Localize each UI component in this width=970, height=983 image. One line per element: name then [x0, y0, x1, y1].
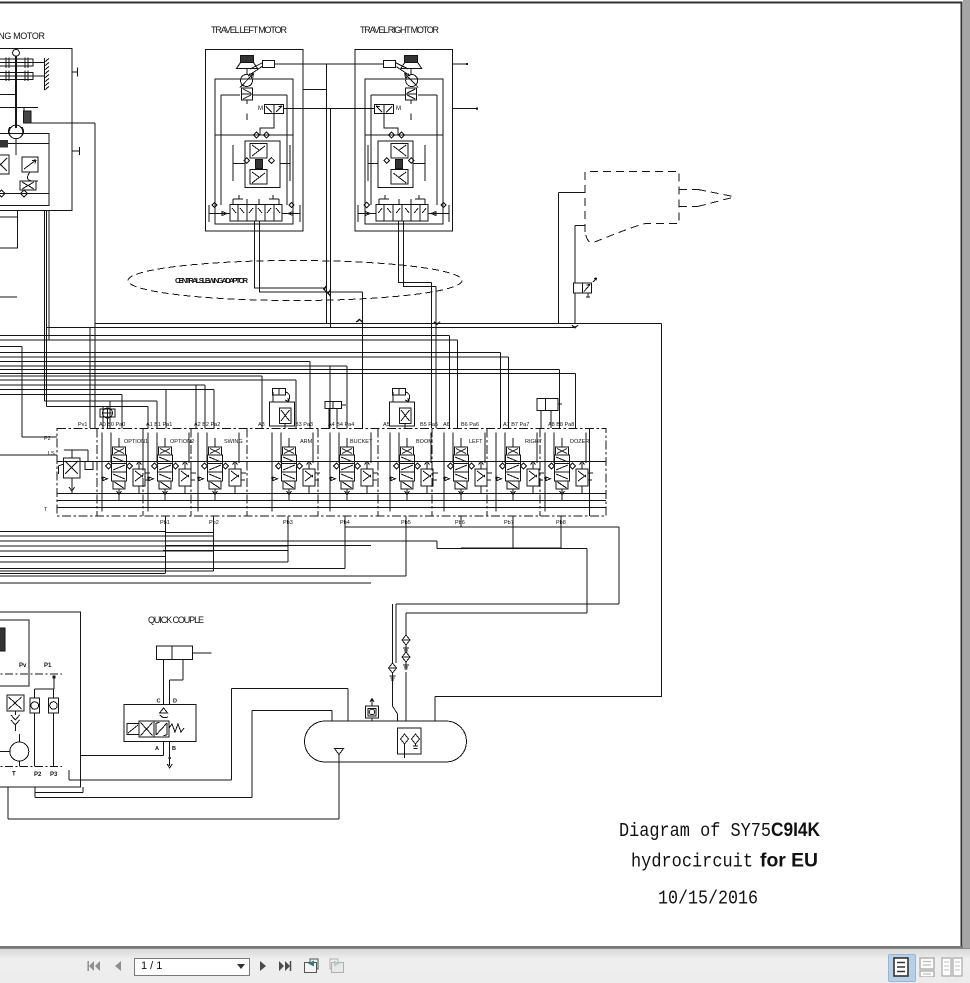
- internals row2 valve: [0, 155, 9, 174]
- travel left motor: [206, 50, 303, 231]
- svg-text:Pb7: Pb7: [504, 520, 514, 526]
- breather drain line: [8, 762, 339, 819]
- pilot box: [263, 61, 275, 68]
- svg-text:A4 B4 Pa4: A4 B4 Pa4: [328, 422, 354, 428]
- svg-text:T: T: [12, 772, 16, 778]
- continuous view icon: [919, 957, 935, 977]
- section labels: [124, 439, 589, 445]
- pedestal: [0, 95, 38, 111]
- svg-text:T: T: [44, 507, 48, 513]
- inner valve box: [0, 134, 49, 206]
- motor circle: [9, 125, 23, 139]
- svg-text:ARM: ARM: [300, 439, 313, 445]
- toolbar first-page btn: [86, 958, 102, 974]
- svg-text:B: B: [172, 746, 176, 752]
- svg-text:OPTION2: OPTION2: [170, 439, 194, 445]
- svg-text:A5: A5: [383, 422, 390, 428]
- below-block tie wires: [165, 516, 561, 576]
- wire QC rod: [193, 652, 212, 654]
- A/B stems: [164, 742, 173, 769]
- gear rack upper: [0, 59, 33, 66]
- single page view icon (active): [888, 954, 916, 982]
- pilot bus lines left: [0, 335, 449, 428]
- central slewing adaptor ellipse: [128, 261, 462, 301]
- title text: [619, 820, 820, 910]
- svg-text:LS: LS: [48, 451, 55, 457]
- QC valve: [124, 699, 196, 769]
- svg-text:M: M: [258, 106, 263, 112]
- svg-text:RIGHT: RIGHT: [525, 439, 543, 445]
- wire pump to QC: [81, 755, 164, 757]
- wire travel-right pilot pair: [399, 231, 436, 287]
- svg-text:OPTION1: OPTION1: [124, 439, 148, 445]
- counterbalance valve: [245, 141, 280, 188]
- wire slewing out right: [30, 123, 95, 323]
- toolbar next btn: [255, 958, 271, 974]
- pump drain jog: [35, 787, 83, 793]
- port check P2: [30, 698, 40, 713]
- svg-text:10/15/2016: 10/15/2016: [658, 888, 758, 910]
- svg-text:TRAVEL LEFT MOTOR: TRAVEL LEFT MOTOR: [211, 25, 288, 35]
- main control valve block border: [57, 429, 606, 517]
- wire between motors: [275, 64, 478, 109]
- wire branch right: [330, 292, 362, 428]
- BUCKET top component: [325, 402, 346, 429]
- internals row4 diamonds: [0, 190, 49, 197]
- svg-text:SWING: SWING: [224, 439, 243, 445]
- motor M1: [241, 75, 253, 87]
- svg-text:P2: P2: [44, 436, 51, 442]
- DOZER pilot cylinder: [537, 399, 562, 429]
- internals row3: [20, 181, 36, 190]
- wire slewing pilot pair: [45, 211, 50, 407]
- wire P3 feed pair: [90, 324, 95, 429]
- svg-text:C9I4K: C9I4K: [771, 820, 820, 841]
- svg-text:A6: A6: [443, 422, 450, 428]
- 4way body: [139, 721, 154, 737]
- svg-text:BUCKET: BUCKET: [350, 439, 373, 445]
- wire central pair: [326, 64, 330, 328]
- toolbar prev btn: [110, 958, 126, 974]
- svg-text:SLEWING MOTOR: SLEWING MOTOR: [0, 31, 46, 41]
- solenoid valve M: [265, 105, 284, 114]
- svg-text:A: A: [155, 746, 159, 752]
- svg-text:B3 Pa3: B3 Pa3: [295, 422, 313, 428]
- svg-text:M: M: [396, 106, 401, 112]
- svg-text:CENTRAL SLEWING ADAPTOR: CENTRAL SLEWING ADAPTOR: [175, 276, 249, 285]
- wire to blob lower: [575, 226, 585, 283]
- internals row1: [0, 140, 8, 148]
- wire travel-left pilot pair: [255, 231, 331, 292]
- galleries: [57, 461, 606, 507]
- pump unit box: [0, 612, 81, 787]
- ARM pilot module: [270, 389, 295, 429]
- pilot relief: [7, 695, 24, 711]
- next-view icon (disabled): [327, 957, 346, 975]
- slewing drain steps left: [0, 211, 18, 297]
- short cols to Pv0 ports: [103, 401, 110, 428]
- dashed adaptor blob: [585, 172, 735, 243]
- svg-text:Diagram of SY75: Diagram of SY75: [619, 820, 771, 842]
- return filter: [398, 728, 422, 754]
- slewing motor label: [0, 25, 440, 41]
- svg-text:A1 B1 Pa1: A1 B1 Pa1: [146, 422, 172, 428]
- travel right motor: [355, 50, 452, 231]
- svg-text:P1: P1: [44, 663, 52, 669]
- svg-text:Pv: Pv: [19, 663, 27, 669]
- svg-text:QUICK COUPLE: QUICK COUPLE: [148, 615, 204, 625]
- svg-text:P3: P3: [50, 772, 58, 778]
- T stub right: [72, 68, 80, 156]
- slewing motor box: [0, 48, 80, 210]
- solenoid: [127, 724, 139, 735]
- breather: [335, 749, 344, 763]
- svg-text:D: D: [173, 699, 177, 705]
- two page view icon: [941, 957, 963, 977]
- prev-view icon: [302, 957, 321, 975]
- speed valve: [242, 88, 253, 94]
- svg-text:Pv1: Pv1: [78, 422, 87, 428]
- outlet stems: [255, 221, 260, 231]
- pump circle: [10, 742, 29, 761]
- shaft: [15, 56, 17, 128]
- svg-text:B6 Pa6: B6 Pa6: [461, 422, 479, 428]
- wire to blob upper: [558, 192, 585, 324]
- solenoid valve on blob line: [574, 278, 597, 324]
- svg-text:TRAVEL RIGHT MOTOR: TRAVEL RIGHT MOTOR: [360, 25, 440, 35]
- svg-text:A8 B8 Pa8: A8 B8 Pa8: [548, 422, 574, 428]
- spring: [169, 724, 184, 732]
- brake box: [24, 111, 32, 123]
- internals pilot: [22, 157, 38, 172]
- block inner right wall: [588, 429, 590, 517]
- page number box: [134, 958, 250, 976]
- wire to shuttle: [247, 114, 274, 136]
- tank return steps from QC: [69, 689, 348, 781]
- node dot: [466, 63, 468, 65]
- chevron junctions on bus: [434, 322, 578, 328]
- LS line: [0, 454, 57, 456]
- port symbol G: [100, 408, 115, 428]
- parking brake: [241, 56, 254, 63]
- QC cylinder: [157, 646, 212, 704]
- junction chevrons: [324, 286, 363, 322]
- side labels: [44, 436, 55, 513]
- strainer component above tank: [366, 699, 379, 722]
- svg-text:C: C: [157, 699, 161, 705]
- svg-text:B5 Pa5: B5 Pa5: [420, 422, 438, 428]
- svg-text:P2: P2: [34, 772, 42, 778]
- svg-text:A2 B2 Pa2: A2 B2 Pa2: [194, 422, 220, 428]
- wire link y89: [303, 89, 326, 91]
- pilot check: [160, 708, 168, 718]
- svg-text:hydrocircuit: hydrocircuit: [631, 851, 753, 873]
- bottom-left bus to pump: [0, 562, 406, 583]
- svg-text:LEFT: LEFT: [469, 439, 483, 445]
- bottom port labels: [160, 520, 566, 526]
- rails: [221, 95, 287, 205]
- port check P3: [49, 698, 59, 713]
- return loop right: [435, 324, 662, 722]
- svg-text:Pb6: Pb6: [455, 520, 465, 526]
- gear rack lower: [0, 72, 33, 79]
- port labels top: [78, 422, 574, 428]
- svg-text:A7 B7 Pa7: A7 B7 Pa7: [503, 422, 529, 428]
- BOOM pilot module: [390, 389, 415, 429]
- toolbar last-page btn: [276, 958, 292, 974]
- svg-text:A3: A3: [258, 422, 265, 428]
- wire right pair descend: [432, 283, 436, 428]
- main control spool: [230, 205, 282, 222]
- shuttle row: [215, 134, 293, 136]
- tank: [305, 721, 467, 762]
- M labels: [258, 106, 401, 112]
- return bus pair: [47, 324, 662, 328]
- gearbox shaft circle: [13, 49, 20, 56]
- wall hatch: [45, 58, 50, 90]
- svg-text:A0 B0 Pa0: A0 B0 Pa0: [99, 422, 125, 428]
- svg-text:for EU: for EU: [760, 851, 818, 872]
- main relief valve left: [59, 450, 94, 493]
